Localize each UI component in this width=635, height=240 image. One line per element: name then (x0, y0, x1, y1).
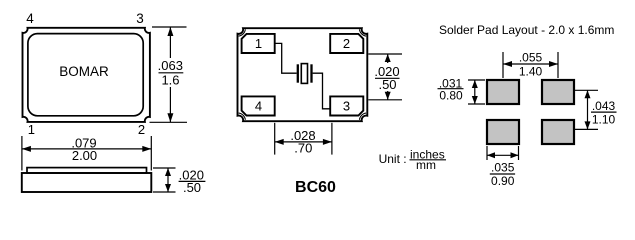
svg-text:1.40: 1.40 (519, 65, 543, 79)
dimension .035/0.90 extension line left (486, 146, 488, 160)
corner castellation arc bottom-left (239, 113, 246, 120)
dimension .063/1.6 arrow line (169, 27, 171, 122)
corner castellation arc top-left (239, 29, 246, 36)
wire pad1 to crystal (275, 43, 297, 73)
dimension .043/1.10 arrow line (587, 90, 589, 129)
svg-text:2: 2 (138, 122, 145, 137)
svg-text:.063: .063 (158, 58, 183, 73)
svg-text:4: 4 (26, 11, 34, 26)
svg-text:3: 3 (136, 11, 144, 26)
package lid (inner rounded rect) (28, 34, 143, 116)
svg-text:4: 4 (255, 99, 262, 114)
svg-text:.50: .50 (183, 180, 201, 195)
svg-text:0.90: 0.90 (491, 174, 515, 188)
dimension text .020 over .50 (middle) (374, 63, 401, 91)
dimension .031/0.80 arrow line (474, 80, 476, 104)
dimension .020/.50 extension line top (middle) (368, 53, 402, 55)
dimension .020/.50 extension line top (side view) (153, 167, 176, 169)
solder pad top-right (542, 80, 574, 104)
svg-text:mm: mm (416, 158, 436, 172)
svg-text:.50: .50 (378, 77, 396, 92)
dimension text .063 over 1.6 (157, 58, 184, 87)
crystal Y1 right plate (310, 64, 312, 82)
svg-text:.043: .043 (592, 99, 616, 113)
dimension .043/1.10 extension line top (575, 89, 599, 91)
dimension .079/2.00 arrow line (22, 148, 151, 150)
dimension .020/.50 arrow line (side view) (167, 168, 169, 192)
solder pad bottom-left (487, 120, 519, 144)
dimension .031/0.80 extension line top (468, 79, 485, 81)
dimension .063/1.6 extension line top (152, 26, 187, 28)
dimension .035/0.90 arrow line (487, 154, 519, 156)
pad 3 (bottom-right) (330, 96, 363, 115)
svg-text:2.00: 2.00 (72, 148, 97, 163)
side view body (22, 173, 152, 192)
pad 2 (top-right) (330, 34, 363, 53)
svg-text:Solder Pad Layout - 2.0 x 1.6m: Solder Pad Layout - 2.0 x 1.6mm (439, 23, 614, 37)
dimension .055/1.40 arrow line (503, 63, 558, 65)
svg-text:1.6: 1.6 (161, 72, 179, 87)
package outline (castellated corners) (23, 28, 150, 122)
pad 1 (top-left) (242, 34, 275, 53)
dimension .055/1.40 extension line left (502, 52, 504, 78)
dimension .035/0.90 extension line right (518, 146, 520, 160)
solder pad bottom-right (542, 120, 574, 144)
dimension .055/1.40 extension line right (557, 52, 559, 78)
dimension .063/1.6 extension line bottom (150, 121, 188, 123)
svg-text:1.10: 1.10 (592, 113, 616, 127)
dimension .079/2.00 extension line right (150, 136, 152, 171)
svg-text:.035: .035 (491, 161, 515, 175)
corner castellation arc bottom-right (359, 113, 366, 120)
svg-text:Unit :: Unit : (379, 152, 407, 166)
dimension .079/2.00 extension line left (21, 136, 23, 171)
crystal Y1 left plate (297, 64, 299, 82)
svg-text:.70: .70 (294, 141, 312, 156)
side view lid (27, 168, 147, 173)
svg-text:2: 2 (343, 36, 350, 51)
svg-text:.055: .055 (519, 51, 543, 65)
crystal Y1 body (301, 64, 307, 84)
svg-text:BC60: BC60 (295, 179, 336, 196)
dimension text .028 over .70 (288, 128, 318, 141)
dimension .028/.70 extension line left (274, 123, 276, 155)
svg-text:0.80: 0.80 (439, 89, 463, 103)
dimension .031/0.80 extension line bottom (468, 103, 485, 105)
dimension .020/.50 extension line bottom (side view) (153, 191, 176, 193)
dimension .043/1.10 extension line bottom (575, 128, 599, 130)
svg-text:1: 1 (255, 36, 262, 51)
dimension .020/.50 extension line bottom (middle) (368, 99, 402, 101)
package outline (castellated corners) (238, 28, 368, 121)
svg-text:1: 1 (28, 122, 35, 137)
dimension .028/.70 extension line right (331, 123, 333, 155)
pad 4 (bottom-left) (242, 96, 275, 115)
dimension .028/.70 arrow line (275, 141, 332, 143)
dimension .020/.50 arrow line (middle) (387, 54, 389, 100)
svg-text:BOMAR: BOMAR (59, 64, 109, 79)
svg-text:3: 3 (343, 99, 350, 114)
corner castellation arc top-right (359, 29, 366, 36)
solder pad top-left (487, 80, 519, 104)
wire crystal to pad3 (313, 73, 331, 109)
